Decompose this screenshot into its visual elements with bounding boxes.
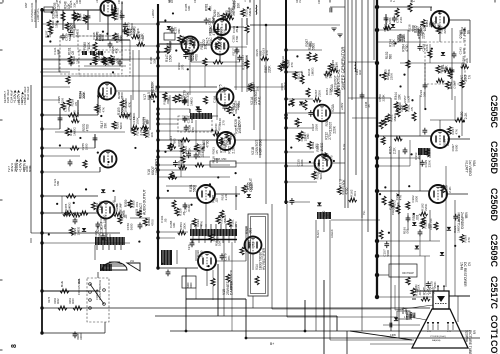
capacitor: [118, 60, 123, 67]
svg-text:10K: 10K: [150, 131, 154, 137]
resistor: [97, 94, 105, 98]
wire: [425, 62, 465, 64]
wire: [205, 203, 207, 227]
junction: [375, 239, 379, 243]
svg-text:384V B: 384V B: [13, 163, 17, 172]
dashed enclosure detector V1 module: [425, 42, 465, 84]
svg-text:150K: 150K: [303, 133, 307, 141]
resistor: [95, 105, 99, 113]
label: [104, 233, 112, 241]
label: [213, 9, 221, 17]
svg-text:100K: 100K: [79, 0, 82, 4]
svg-text:5600: 5600: [386, 250, 390, 257]
capacitor: [138, 223, 143, 230]
resistor: [113, 33, 117, 41]
wire: [361, 0, 363, 218]
svg-text:½12AT7: ½12AT7: [464, 160, 468, 173]
svg-text:0000: 0000: [190, 282, 193, 288]
svg-text:.05: .05: [166, 97, 170, 102]
capacitor: [308, 110, 313, 117]
wire: [286, 165, 314, 167]
svg-text:220K: 220K: [314, 124, 318, 131]
junction: [102, 30, 104, 32]
wire: [424, 63, 426, 108]
resistor: [303, 100, 307, 110]
svg-text:1MEG: 1MEG: [251, 82, 255, 92]
capacitor: [190, 241, 195, 248]
capacitor: [222, 104, 227, 111]
junction: [233, 114, 235, 116]
svg-text:2.2K: 2.2K: [392, 147, 396, 154]
junction: [40, 289, 43, 292]
junction: [156, 196, 159, 199]
label: [194, 0, 197, 3]
wire: [410, 317, 427, 320]
svg-text:.001: .001: [353, 191, 357, 197]
junction: [167, 190, 169, 192]
junction heavy: [375, 164, 379, 168]
wire: [398, 150, 400, 338]
label model COT1: [489, 315, 499, 339]
label: [247, 82, 255, 92]
junction: [379, 74, 381, 76]
resistor: [112, 12, 116, 20]
label: [178, 208, 186, 216]
junction: [228, 139, 230, 141]
label: [127, 22, 135, 30]
label wire black: [317, 230, 320, 238]
wire: [158, 130, 218, 132]
label R173: [48, 296, 51, 303]
diode: [196, 106, 200, 109]
capacitor: [61, 33, 66, 40]
junction: [156, 168, 159, 171]
label: [421, 43, 429, 51]
svg-text:220K: 220K: [268, 65, 272, 73]
label: [138, 33, 146, 41]
label: [264, 65, 272, 73]
label: [230, 106, 238, 114]
wire: [286, 71, 302, 73]
wire bundle: [351, 0, 353, 100]
junction: [265, 24, 268, 27]
resistor: [70, 146, 79, 150]
junction: [100, 115, 102, 117]
wire: [42, 68, 120, 70]
label value: [411, 195, 418, 203]
wire: [138, 50, 140, 118]
resistor: [177, 94, 181, 102]
label: [222, 138, 230, 146]
label value: [443, 137, 450, 146]
wire: [42, 212, 98, 214]
resistor R161: [73, 306, 82, 310]
switch arm: [90, 284, 104, 304]
label value: [94, 230, 101, 238]
junction heavy: [375, 61, 379, 65]
label: [398, 102, 406, 110]
junction: [156, 129, 159, 132]
border tick: [169, 0, 171, 3]
junction: [234, 172, 236, 174]
svg-text:5600: 5600: [454, 144, 458, 151]
resistor: [221, 13, 225, 21]
resistor: [61, 102, 65, 110]
label value: [325, 88, 332, 96]
wire: [189, 55, 191, 95]
svg-text:1MEG: 1MEG: [190, 114, 194, 123]
junction: [112, 71, 114, 73]
label: [132, 116, 140, 124]
resistor: [382, 72, 386, 80]
svg-text:1000: 1000: [219, 31, 223, 38]
label: [142, 117, 150, 125]
wire: [55, 9, 100, 11]
wire: [158, 21, 214, 23]
wire: [245, 299, 247, 338]
wire: [250, 24, 286, 26]
svg-text:33K: 33K: [73, 24, 77, 31]
svg-text:HOR OSC: HOR OSC: [259, 139, 263, 155]
svg-text:43(7): 43(7): [188, 244, 191, 250]
svg-text:100K: 100K: [87, 41, 91, 49]
junction: [375, 295, 379, 299]
svg-text:2.2K: 2.2K: [428, 20, 432, 27]
label value: [45, 30, 52, 38]
label value: [218, 118, 225, 126]
label V1: [459, 75, 471, 83]
junction: [107, 161, 109, 163]
label value: [98, 34, 105, 42]
svg-text:270: 270: [265, 50, 269, 55]
label: [430, 281, 438, 289]
wire: [42, 59, 130, 61]
label value: [184, 3, 191, 11]
label value: [311, 123, 318, 131]
junction: [40, 331, 43, 334]
svg-text:.01MF: .01MF: [300, 70, 304, 79]
label: [200, 42, 208, 50]
label model C2509C: [489, 234, 499, 268]
wire B+ bus right: [376, 0, 378, 297]
wire: [361, 180, 363, 331]
wire: [339, 90, 341, 180]
capacitor: [384, 16, 389, 23]
label voltage table: [13, 89, 24, 103]
label V19: [135, 189, 147, 215]
junction: [51, 11, 53, 13]
label: [246, 182, 254, 190]
resistor: [180, 146, 184, 154]
switch contact: [103, 289, 106, 292]
resistor: [337, 187, 341, 195]
svg-text:270: 270: [103, 224, 107, 229]
resistor: [195, 163, 204, 167]
junction: [304, 330, 307, 333]
label value: [79, 91, 86, 99]
junction: [411, 99, 413, 101]
junction: [403, 74, 405, 76]
wire: [42, 58, 158, 60]
label value: [401, 307, 408, 315]
tube V14 HV rectifier: [245, 237, 262, 254]
label: [449, 80, 457, 89]
label L51: [130, 260, 135, 263]
resistor: [434, 222, 438, 230]
svg-text:Y21-R36 (10uF): Y21-R36 (10uF): [430, 336, 446, 338]
wire: [271, 204, 273, 309]
svg-text:YEL: YEL: [363, 210, 366, 215]
junction heavy: [375, 295, 379, 299]
capacitor: [101, 233, 106, 240]
svg-text:150K: 150K: [238, 119, 242, 127]
wire: [246, 18, 248, 25]
wire: [348, 97, 377, 99]
label: [54, 297, 60, 304]
svg-text:1MEG: 1MEG: [180, 138, 184, 147]
wire: [158, 231, 188, 233]
wire transformer tap: [120, 245, 122, 250]
capacitor: [418, 230, 423, 237]
wire: [394, 285, 396, 310]
wire: [73, 10, 75, 28]
label value: [221, 193, 228, 201]
coil: [354, 62, 357, 72]
svg-text:2.2K: 2.2K: [464, 112, 468, 119]
potentiometer wiper: [298, 121, 302, 123]
tube V6 3rd IF amp: [431, 11, 449, 29]
wire: [454, 96, 456, 120]
resistor: [240, 247, 244, 255]
capacitor: [184, 125, 189, 132]
svg-text:150K: 150K: [237, 101, 241, 108]
capacitor: [330, 8, 332, 13]
capacitor: [182, 98, 187, 105]
wire: [42, 45, 158, 47]
svg-text:ION TRAP: ION TRAP: [402, 272, 414, 275]
svg-text:½12SN7GT: ½12SN7GT: [334, 75, 338, 92]
label: [208, 28, 216, 36]
label: [460, 111, 468, 119]
label: [56, 0, 62, 4]
svg-text:47K: 47K: [227, 254, 231, 260]
svg-text:1MEG: 1MEG: [311, 67, 315, 76]
label value: [296, 159, 303, 167]
label: [187, 282, 193, 288]
svg-text:1MEG: 1MEG: [189, 97, 193, 106]
svg-text:2.2K: 2.2K: [448, 186, 452, 193]
label value: [126, 223, 133, 231]
svg-text:1000: 1000: [462, 47, 466, 54]
capacitor: [68, 30, 73, 37]
label value: [211, 156, 218, 164]
svg-text:.05: .05: [401, 105, 405, 110]
wire: [461, 63, 463, 136]
svg-text:1MEG: 1MEG: [76, 226, 80, 235]
label value: [460, 27, 467, 35]
wire: [451, 28, 453, 100]
junction: [284, 200, 287, 203]
junction: [399, 85, 401, 87]
tube V20A vertical sweep: [314, 105, 331, 122]
wire transformer tap: [210, 236, 212, 243]
resistor: [242, 185, 246, 193]
resistor: [141, 125, 149, 129]
resistor: [381, 137, 385, 145]
resistor: [137, 42, 145, 46]
fuse F1: [44, 7, 53, 12]
border tick: [0, 199, 3, 201]
label: [424, 221, 432, 229]
capacitor: [290, 198, 295, 205]
svg-text:10K: 10K: [75, 57, 79, 63]
diode: [82, 228, 86, 231]
label value: [414, 152, 421, 160]
label value: [307, 67, 314, 76]
label: [132, 26, 140, 34]
label wire green: [331, 229, 334, 238]
junction: [56, 203, 58, 205]
resistor: [389, 200, 393, 208]
svg-text:2.2K: 2.2K: [231, 146, 235, 153]
svg-text:4700: 4700: [150, 219, 154, 226]
junction heavy: [375, 5, 379, 9]
svg-text:COT4: COT4: [489, 340, 499, 354]
resistor: [460, 234, 464, 242]
label: [385, 51, 393, 59]
label value: [163, 97, 170, 105]
label: [331, 60, 339, 68]
label: [296, 70, 304, 79]
resistor: [203, 58, 207, 66]
label: [233, 1, 241, 9]
resistor: [283, 59, 287, 67]
border tick: [2, 0, 4, 3]
dashed enclosure focus switch: [87, 278, 109, 322]
resistor: [278, 63, 282, 71]
junction: [410, 153, 412, 155]
junction: [156, 122, 159, 125]
junction: [247, 7, 249, 9]
junction: [284, 70, 287, 73]
junction heavy: [375, 28, 379, 32]
resistor: [226, 16, 234, 20]
svg-text:V20A: V20A: [331, 103, 335, 112]
resistor: [68, 113, 78, 117]
label: [314, 89, 322, 97]
label: [241, 54, 249, 62]
label value: [99, 214, 106, 223]
wire transformer tap: [205, 224, 207, 229]
wire B+ bus center-left: [157, 4, 159, 268]
label value: [69, 0, 76, 8]
junction: [245, 337, 248, 340]
svg-text:5600: 5600: [311, 43, 315, 50]
junction: [187, 68, 189, 70]
capacitor: [204, 18, 209, 25]
capacitor: [420, 160, 425, 167]
label: [168, 0, 174, 3]
label: [169, 136, 177, 144]
resistor: [66, 194, 76, 198]
svg-text:33K: 33K: [73, 2, 77, 7]
junction: [172, 12, 174, 14]
resistor: [330, 68, 338, 72]
label wire blue: [343, 143, 346, 150]
resistor: [220, 210, 224, 218]
wire: [259, 0, 261, 158]
diode: [412, 222, 416, 225]
resistor: [436, 65, 440, 73]
wire AGC join: [31, 232, 42, 234]
label value: [232, 26, 239, 34]
resistor: [132, 127, 136, 135]
wire: [231, 242, 233, 331]
resistor: [448, 70, 452, 78]
border tick: [35, 0, 37, 3]
junction: [164, 151, 166, 153]
border tick: [0, 349, 3, 351]
junction: [375, 134, 379, 138]
resistor: [190, 38, 194, 46]
label: [389, 112, 397, 121]
tube V13 horizontal output: [197, 185, 215, 203]
resistor: [406, 277, 410, 285]
label: [404, 317, 411, 319]
svg-text:SWEEP GENERATOR: SWEEP GENERATOR: [341, 47, 346, 90]
svg-text:10K: 10K: [115, 57, 119, 63]
capacitor: [215, 27, 220, 34]
wire: [286, 98, 313, 100]
wire transformer tap: [220, 224, 222, 229]
junction: [238, 117, 240, 119]
label 453V: [392, 205, 395, 215]
wire: [212, 270, 214, 278]
capacitor: [413, 313, 415, 318]
label: [324, 132, 332, 140]
junction: [291, 102, 293, 104]
svg-text:4700: 4700: [205, 140, 209, 147]
resistor box R360: [182, 276, 196, 288]
svg-text:33K: 33K: [56, 49, 60, 54]
capacitor: [183, 203, 188, 210]
capacitor: [390, 323, 392, 328]
svg-text:5600: 5600: [192, 185, 196, 192]
resistor: [173, 95, 177, 103]
label: [165, 54, 173, 62]
junction: [156, 85, 159, 88]
wire: [219, 55, 221, 62]
label: [64, 33, 72, 41]
resistor: [422, 216, 426, 224]
junction: [463, 120, 465, 122]
svg-text:.001: .001: [406, 228, 410, 234]
svg-text:C5/F: C5/F: [23, 99, 27, 105]
label: [208, 16, 216, 25]
wire: [42, 75, 158, 77]
wire: [99, 167, 101, 172]
wire: [99, 8, 101, 10]
picture tube pin: [447, 322, 449, 325]
svg-text:1MEG: 1MEG: [456, 224, 460, 233]
svg-text:33K: 33K: [152, 59, 156, 64]
wire transformer tap: [228, 236, 230, 243]
junction: [156, 50, 159, 53]
label: [419, 23, 427, 31]
wire: [430, 119, 465, 121]
wire: [176, 250, 178, 264]
coil: [255, 5, 258, 15]
